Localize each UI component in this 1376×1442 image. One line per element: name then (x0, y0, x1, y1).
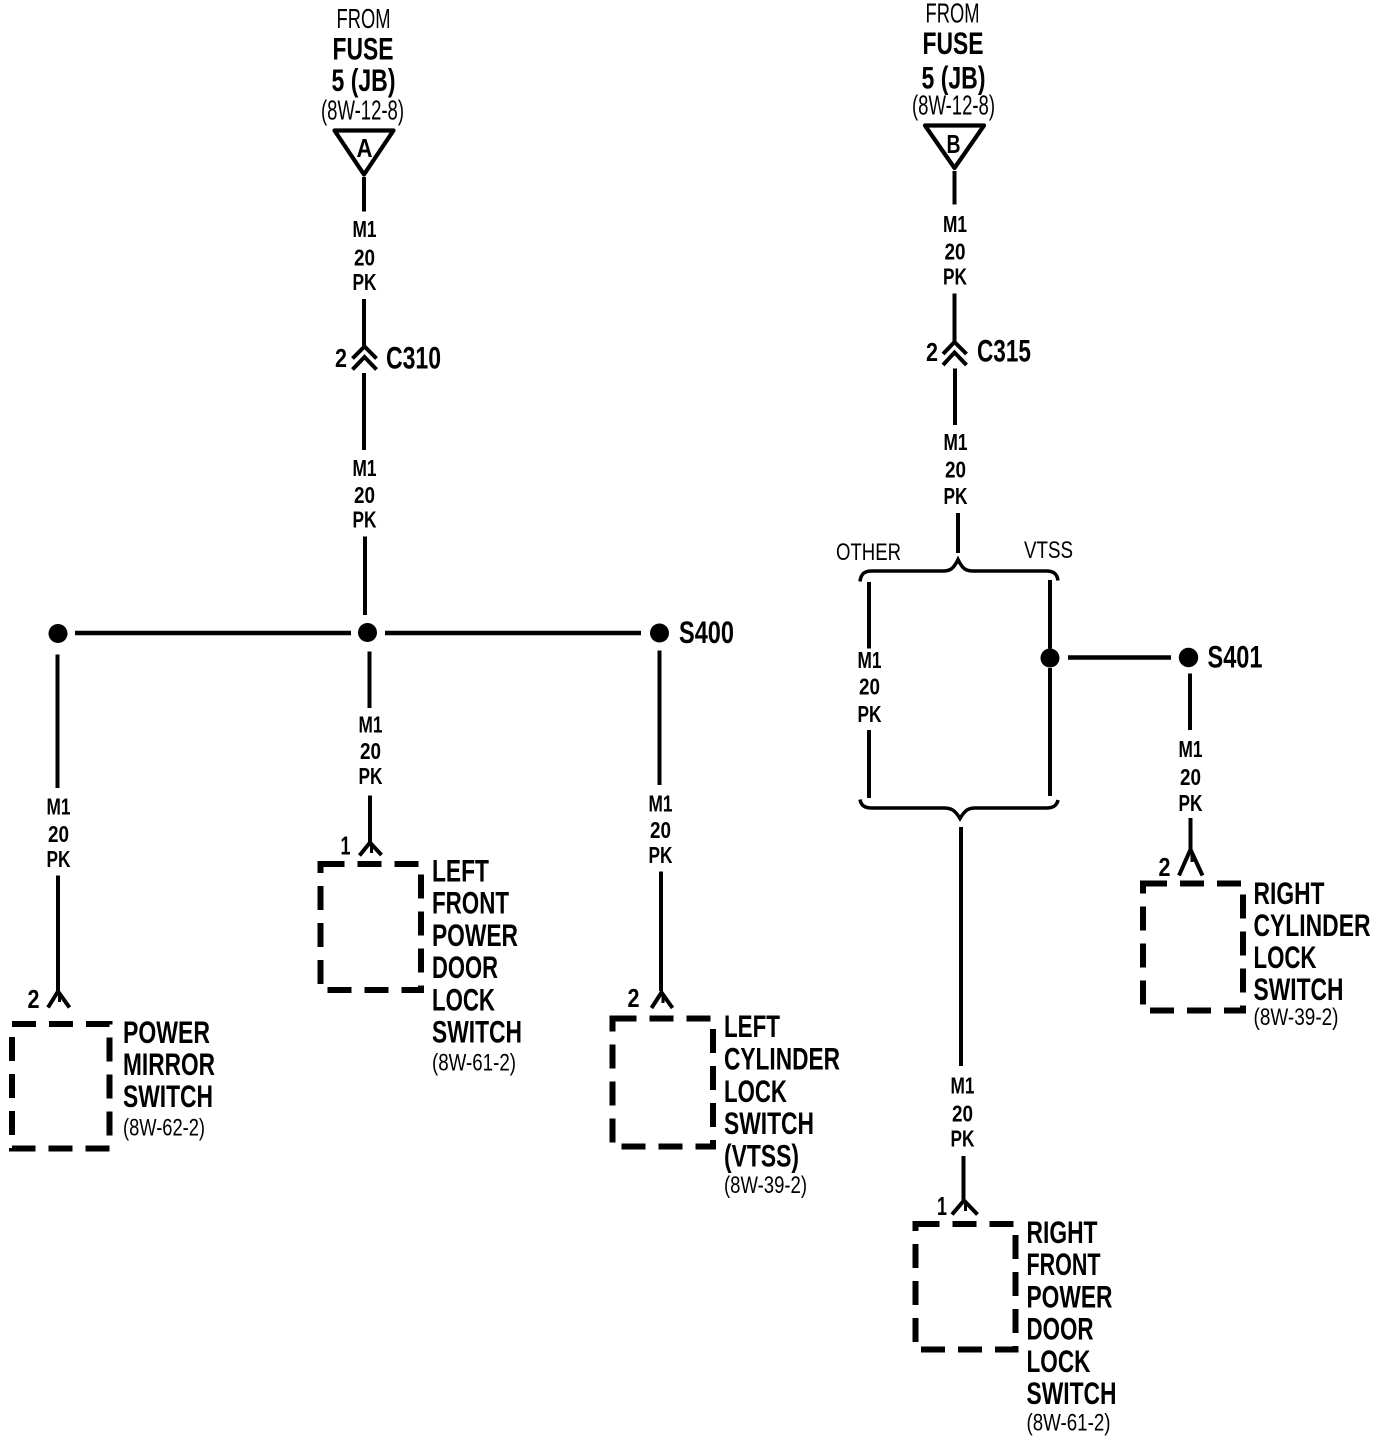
svg-text:M1: M1 (943, 211, 967, 237)
wire: VTSS sub-branch down (1048, 580, 1052, 649)
power mirror switch label (123, 1014, 215, 1142)
svg-text:M1: M1 (858, 647, 882, 673)
svg-text:2: 2 (628, 983, 640, 1013)
wire label M1 20 PK (right col seg 1) (943, 211, 967, 290)
svg-text:POWER: POWER (1027, 1278, 1113, 1314)
brace merge bottom (860, 800, 1058, 819)
left front power door lock switch label (432, 853, 522, 1077)
wire: to left front power door lock switch (368, 796, 372, 843)
wire: S401 branch down (1188, 674, 1192, 731)
wire: to right cylinder lock switch (1189, 818, 1193, 849)
off-page connector triangle A (335, 131, 394, 175)
svg-text:S400: S400 (679, 614, 734, 650)
svg-text:PK: PK (353, 507, 377, 533)
svg-text:PK: PK (649, 842, 673, 868)
svg-text:M1: M1 (944, 429, 968, 455)
svg-text:1: 1 (937, 1191, 947, 1221)
svg-text:LOCK: LOCK (1254, 939, 1317, 975)
wire: triangle B to label (953, 171, 957, 205)
off-page connector triangle B (925, 126, 984, 169)
svg-text:20: 20 (952, 1101, 973, 1127)
svg-text:DOOR: DOOR (1027, 1311, 1094, 1347)
wire: label to connector C315 (953, 294, 957, 343)
wire (385, 631, 641, 636)
junction dot S400 (650, 624, 669, 643)
svg-text:SWITCH: SWITCH (432, 1014, 522, 1050)
svg-text:SWITCH: SWITCH (724, 1105, 814, 1141)
wire label M1 20 PK (merged branch) (951, 1073, 975, 1152)
right front power door lock switch box (916, 1224, 1016, 1350)
svg-text:(8W-61-2): (8W-61-2) (1027, 1410, 1111, 1437)
wire: label to connector C310 (362, 299, 366, 346)
wire: label to splice S400 (363, 537, 367, 616)
connector C315 (926, 333, 1031, 369)
wire: left branch down (56, 655, 60, 789)
splice S400 bus wire (75, 631, 351, 636)
svg-text:M1: M1 (649, 791, 673, 817)
svg-text:LEFT: LEFT (432, 853, 489, 889)
junction dot S401 (1179, 648, 1198, 667)
power feed label B: FROM FUSE 5 (JB) (8W-12-8) (912, 0, 995, 121)
svg-text:PK: PK (951, 1126, 975, 1152)
svg-text:(8W-39-2): (8W-39-2) (724, 1172, 807, 1199)
svg-text:VTSS: VTSS (1024, 537, 1073, 564)
svg-text:B: B (947, 129, 961, 159)
svg-text:(VTSS): (VTSS) (724, 1137, 799, 1173)
wire: middle branch down (368, 652, 372, 709)
wire label M1 20 PK (S401 branch) (1179, 736, 1203, 816)
svg-text:PK: PK (858, 701, 882, 727)
wire: merged branch down (959, 827, 963, 1066)
wire: OTHER sub-branch down (867, 582, 871, 649)
svg-text:RIGHT: RIGHT (1027, 1214, 1098, 1250)
svg-text:20: 20 (354, 482, 375, 508)
svg-text:(8W-62-2): (8W-62-2) (123, 1115, 205, 1142)
svg-text:PK: PK (353, 269, 377, 295)
pin 2 (left cylinder lock switch) (628, 983, 673, 1013)
svg-text:(8W-12-8): (8W-12-8) (912, 90, 995, 121)
wire: C310 down (362, 373, 366, 450)
svg-text:FRONT: FRONT (1027, 1246, 1101, 1282)
svg-text:1: 1 (341, 831, 351, 861)
svg-text:FRONT: FRONT (432, 885, 509, 921)
svg-text:PK: PK (359, 763, 383, 789)
svg-text:M1: M1 (47, 794, 71, 820)
svg-text:C315: C315 (977, 333, 1031, 369)
wire: label to brace (956, 513, 960, 553)
svg-text:M1: M1 (359, 712, 383, 738)
wire: VTSS sub-branch to bottom brace (1048, 668, 1052, 796)
svg-text:(8W-61-2): (8W-61-2) (432, 1050, 516, 1077)
wire label M1 20 PK (left col seg 1) (353, 216, 377, 295)
svg-text:M1: M1 (353, 216, 377, 242)
svg-text:2: 2 (28, 984, 40, 1014)
wire: C315 down (953, 369, 957, 426)
svg-text:C310: C310 (386, 340, 441, 376)
svg-text:PK: PK (47, 846, 71, 872)
svg-text:MIRROR: MIRROR (123, 1046, 215, 1082)
wire label M1 20 PK (OTHER sub-branch) (858, 647, 882, 727)
wire: to power mirror switch (56, 876, 60, 992)
svg-text:20: 20 (1180, 764, 1201, 790)
right cylinder lock switch box (1143, 884, 1243, 1011)
svg-text:POWER: POWER (123, 1014, 210, 1050)
svg-text:(8W-39-2): (8W-39-2) (1254, 1004, 1339, 1031)
power mirror switch box (12, 1024, 110, 1149)
svg-text:LEFT: LEFT (724, 1008, 780, 1044)
svg-text:LOCK: LOCK (724, 1073, 787, 1109)
pin 1 (left front power door lock switch) (341, 831, 382, 861)
svg-text:DOOR: DOOR (432, 949, 498, 985)
svg-text:20: 20 (360, 738, 381, 764)
connector C310 (335, 340, 441, 376)
wire: to right front power door lock switch (962, 1156, 966, 1200)
brace split OTHER/VTSS (860, 560, 1058, 582)
junction dot center (358, 623, 377, 642)
wire label M1 20 PK (middle branch) (359, 712, 383, 790)
right cylinder lock switch label (1254, 875, 1371, 1031)
svg-text:20: 20 (650, 817, 671, 843)
left front power door lock switch box (321, 864, 422, 990)
svg-text:5 (JB): 5 (JB) (332, 62, 396, 98)
svg-text:POWER: POWER (432, 917, 518, 953)
wire label M1 20 PK (left col seg 2) (353, 455, 377, 533)
wire: triangle A to label (362, 177, 366, 212)
svg-text:20: 20 (354, 245, 375, 271)
wire label M1 20 PK (S400 right branch) (649, 791, 673, 869)
svg-text:M1: M1 (951, 1073, 975, 1099)
svg-text:CYLINDER: CYLINDER (1254, 907, 1371, 943)
svg-text:LOCK: LOCK (432, 981, 495, 1017)
junction dot left (49, 624, 68, 643)
left cylinder lock switch box (613, 1019, 714, 1147)
wire label M1 20 PK (left branch) (47, 794, 71, 873)
svg-text:2: 2 (926, 337, 938, 367)
svg-text:20: 20 (945, 239, 966, 265)
svg-text:FUSE: FUSE (923, 25, 984, 61)
wire: splice bus to S401 (1068, 655, 1171, 660)
pin 1 (right front power door lock switch) (937, 1191, 978, 1221)
svg-text:2: 2 (335, 343, 347, 373)
left cylinder lock switch label (724, 1008, 840, 1199)
svg-text:M1: M1 (353, 455, 377, 481)
junction dot VTSS branch (1041, 649, 1060, 668)
svg-text:LOCK: LOCK (1027, 1343, 1091, 1379)
pin 2 (right cylinder lock switch) (1159, 850, 1203, 883)
power feed label A: FROM FUSE 5 (JB) (8W-12-8) (321, 3, 404, 126)
svg-text:PK: PK (1179, 790, 1203, 816)
svg-text:CYLINDER: CYLINDER (724, 1040, 840, 1076)
wire: OTHER sub-branch to bottom brace (867, 730, 871, 798)
pin 2 (power mirror switch) (28, 984, 70, 1014)
svg-text:PK: PK (943, 264, 967, 290)
svg-text:S401: S401 (1208, 639, 1263, 675)
right front power door lock switch label (1027, 1214, 1117, 1437)
svg-text:20: 20 (945, 457, 966, 483)
svg-text:OTHER: OTHER (836, 539, 901, 566)
wire label M1 20 PK (right col seg 2) (944, 429, 968, 509)
svg-text:FROM: FROM (337, 3, 391, 34)
wire: right branch down from S400 (658, 651, 662, 786)
svg-text:(8W-12-8): (8W-12-8) (321, 95, 404, 126)
svg-text:20: 20 (859, 674, 880, 700)
svg-text:20: 20 (48, 821, 69, 847)
svg-text:PK: PK (944, 483, 968, 509)
svg-text:SWITCH: SWITCH (123, 1078, 213, 1114)
svg-text:SWITCH: SWITCH (1254, 971, 1344, 1007)
svg-text:RIGHT: RIGHT (1254, 875, 1325, 911)
svg-text:M1: M1 (1179, 736, 1203, 762)
svg-text:A: A (357, 133, 373, 163)
wire: to left cylinder lock switch (659, 872, 663, 992)
svg-text:2: 2 (1159, 852, 1171, 882)
svg-text:SWITCH: SWITCH (1027, 1375, 1117, 1411)
